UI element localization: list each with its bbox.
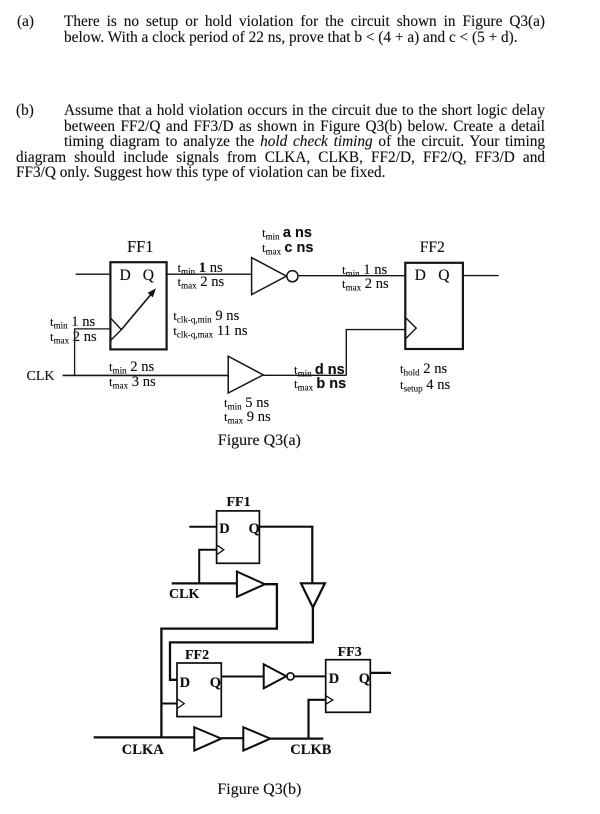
value tmin d ns (clock buffer path) — [294, 363, 345, 377]
value tmin 1 ns (FF1 Q wire) — [178, 261, 223, 275]
paragraph (a) line 2 — [64, 30, 518, 46]
FF3 clock wedge — [326, 696, 333, 704]
wire: buffer output down-left-down to CLKA — [161, 584, 277, 738]
FF1 clock wedge — [111, 318, 122, 340]
flip-flop FF2 box — [405, 263, 463, 349]
inverter U5 triangle — [264, 664, 287, 688]
paragraph (b) line 5 — [16, 165, 386, 181]
value tmax 9 ns (buffer) — [224, 410, 271, 424]
FF2 pin Q (fig b) — [210, 675, 221, 692]
value tmax 2 ns (to FF2 D) — [342, 277, 389, 291]
value tmin a ns (inverter) — [262, 226, 312, 240]
inverter U1 bubble — [287, 271, 298, 282]
flip-flop FF1 box — [217, 511, 260, 563]
inverter U5 bubble — [287, 673, 294, 680]
wire: FF3 Q output stub — [370, 672, 391, 674]
FF2 clock wedge — [406, 318, 417, 339]
FF1 rising-edge arrow — [121, 288, 156, 329]
buffer U3 on CLK — [237, 572, 265, 597]
FF3 pin D (fig b) — [329, 671, 339, 688]
wire: FF1 D input — [76, 273, 110, 275]
label FF1 (fig b) — [227, 495, 251, 511]
paragraph (b) line 1 — [64, 103, 545, 119]
wire: FF1 Q output to inverter — [167, 273, 252, 275]
wire: FF1 D input stub — [189, 526, 216, 528]
wire: buffer output to riser — [263, 374, 346, 376]
buffer U2 on CLK line — [228, 356, 263, 393]
paragraph (b) line 2 — [64, 119, 545, 135]
wire: FF2 Q output to inverter — [221, 676, 263, 678]
label FF2 — [420, 241, 445, 254]
net CLK label — [27, 370, 55, 383]
value tclk-q,max 11 ns — [173, 324, 247, 338]
buffer U6 on CLKA — [194, 727, 221, 750]
caption Figure Q3(b) — [217, 783, 301, 796]
wire: CLK line — [172, 582, 237, 584]
inverter U4 (pointing down) — [301, 583, 325, 607]
wire: CLKA line — [94, 736, 195, 738]
wire: CLK branch riser to FF1 clock — [75, 329, 110, 376]
wire: between buffers — [221, 737, 243, 739]
FF1 pin Q — [143, 269, 154, 282]
value tsetup 4 ns (FF2) — [400, 378, 450, 392]
value tmin 1 ns (CLK to FF1) — [50, 315, 95, 329]
value tmax 2 ns (CLK to FF1) — [50, 330, 97, 344]
net CLKB label — [290, 742, 331, 759]
wire: inverter output down-left-down into FF2 D — [170, 608, 313, 680]
flip-flop FF2 box — [177, 663, 221, 717]
wire: inverter output to FF3 D — [294, 675, 326, 677]
paragraph (a) label — [17, 14, 34, 30]
caption Figure Q3(a) — [218, 434, 301, 447]
FF3 pin Q (fig b) — [359, 671, 370, 688]
value tclk-q,min 9 ns — [173, 309, 239, 323]
FF1 pin D (fig b) — [219, 521, 229, 538]
net CLK label (fig b) — [169, 587, 199, 603]
value tmax 2 ns (FF1 Q wire) — [178, 275, 225, 289]
wire: riser to FF2 clock — [346, 330, 405, 376]
value tmax b ns (clock buffer path) — [294, 377, 346, 391]
wire: CLK line — [63, 374, 229, 376]
paragraph (b) line 4 — [16, 150, 545, 166]
wire: CLK riser to FF1 clock — [199, 550, 216, 584]
FF1 pin D — [120, 269, 131, 282]
wire: inverter output to FF2 D — [298, 275, 404, 277]
net CLKA label — [122, 742, 164, 759]
FF2 clock wedge — [178, 699, 185, 708]
value thold 2 ns (FF2) — [400, 362, 447, 376]
paragraph (b) line 3 — [64, 134, 545, 150]
wire: FF1 Q output right and down — [259, 527, 312, 584]
FF2 pin D (fig b) — [180, 675, 190, 692]
label FF1 — [127, 240, 153, 253]
value tmin 1 ns (to FF2 D) — [342, 263, 387, 277]
FF1 clock wedge — [217, 545, 224, 554]
flip-flop FF3 box — [326, 660, 371, 713]
wire: FF2 Q output — [464, 275, 499, 277]
FF1 pin Q (fig b) — [249, 521, 260, 538]
wire: CLKB riser to FF3 clock — [309, 700, 326, 739]
inverter U1 triangle — [252, 258, 287, 295]
value tmax 3 ns (CLK line) — [109, 375, 156, 389]
value tmin 5 ns (buffer) — [224, 396, 269, 410]
value tmax c ns (inverter) — [262, 241, 313, 255]
paragraph (a) line 1 — [64, 14, 545, 30]
wire: CLKB line — [270, 737, 323, 739]
wire: stub into FF2 clock — [161, 703, 177, 705]
FF2 pin D — [415, 269, 426, 282]
label FF3 (fig b) — [338, 645, 362, 661]
flip-flop FF1 box — [110, 262, 166, 349]
buffer U7 — [243, 727, 270, 750]
FF2 pin Q — [438, 269, 449, 282]
value tmin 2 ns (CLK line) — [109, 360, 154, 374]
label FF2 (fig b) — [185, 648, 209, 664]
paragraph (b) label — [16, 103, 34, 119]
